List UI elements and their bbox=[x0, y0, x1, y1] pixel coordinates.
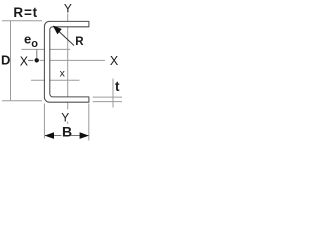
B arrow left bbox=[45, 132, 54, 139]
t extension line bottom bbox=[93, 101, 122, 103]
svg-text:R: R bbox=[75, 36, 84, 48]
e_o dimension line (under label, runs to centre) bbox=[22, 48, 71, 50]
svg-text:X: X bbox=[20, 54, 29, 68]
dimension extension line top (for D) bbox=[2, 20, 42, 22]
B dimension line left segment bbox=[45, 135, 62, 137]
X-X axis line bbox=[40, 59, 106, 61]
svg-text:o: o bbox=[31, 38, 38, 50]
x-bar dimension line bbox=[31, 79, 80, 81]
R arrowhead (points at inner fillet) bbox=[53, 26, 61, 34]
svg-text:Y: Y bbox=[61, 110, 69, 124]
e_o drop line to shear centre bbox=[36, 49, 38, 58]
svg-text:D: D bbox=[1, 52, 10, 67]
B extension line right bbox=[88, 104, 90, 141]
D dimension line bbox=[10, 21, 12, 101]
R leader line bbox=[59, 31, 75, 46]
X axis dash at left bbox=[28, 59, 33, 61]
svg-text:Y: Y bbox=[64, 2, 72, 16]
dimension extension line bottom (for D) bbox=[2, 100, 42, 102]
B dimension line right segment bbox=[71, 135, 89, 137]
t extension line top bbox=[93, 96, 122, 98]
shear centre dot bbox=[35, 58, 39, 62]
B arrow right bbox=[80, 132, 89, 139]
B extension line left bbox=[43, 104, 45, 139]
t dimension line bbox=[112, 79, 114, 108]
channel section outline bbox=[44, 21, 89, 102]
Y-Y centreline bbox=[67, 14, 69, 110]
background bbox=[0, 0, 129, 147]
centreline stub below Y label bbox=[67, 122, 69, 125]
svg-text:R=t: R=t bbox=[13, 5, 38, 20]
svg-text:X: X bbox=[110, 54, 119, 68]
svg-text:x: x bbox=[60, 67, 66, 79]
svg-text:B: B bbox=[62, 123, 72, 139]
svg-text:t: t bbox=[115, 79, 120, 94]
svg-text:e: e bbox=[24, 31, 31, 46]
